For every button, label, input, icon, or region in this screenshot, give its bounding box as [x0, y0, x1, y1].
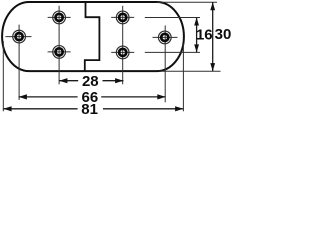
bottom extension line to 30 dim: [159, 70, 221, 72]
svg-text:81: 81: [81, 101, 98, 118]
holes TL/BL centerlines: [48, 6, 71, 85]
81 dim extension line right: [182, 44, 184, 111]
hole BL circles: [53, 46, 66, 59]
28 dim arrow left: [59, 78, 67, 83]
hole R centerlines: [153, 25, 178, 102]
svg-text:28: 28: [82, 73, 99, 90]
top extension line to 30 dim: [157, 1, 217, 3]
hole R circles: [158, 31, 171, 44]
svg-text:30: 30: [215, 26, 232, 43]
hinge body outline (obround plan view): [2, 2, 184, 71]
28 dim line: [59, 80, 78, 82]
hole L centerlines: [6, 25, 32, 100]
hole BR circles: [116, 46, 129, 59]
66 dim arrow left: [19, 94, 27, 99]
hole TR circles: [116, 11, 129, 24]
81 dim line: [3, 108, 77, 110]
16 dim arrow up: [194, 18, 199, 26]
66 dim arrow right: [157, 94, 165, 99]
16 dim arrow down: [194, 44, 199, 52]
hinge joint (interlocking leaf edges): [85, 2, 100, 71]
hole TL circles: [53, 11, 66, 24]
28 dim arrow right: [115, 78, 123, 83]
30 dim arrow up: [210, 2, 215, 10]
81 dim arrow left: [3, 106, 11, 111]
hole L circles: [13, 30, 26, 43]
66 dim line: [19, 96, 78, 98]
svg-text:16: 16: [196, 26, 213, 43]
30 dim line: [212, 2, 214, 71]
holes TR/BR centerlines: [111, 6, 134, 85]
16 dim line: [196, 18, 198, 53]
81 dim arrow right: [175, 106, 183, 111]
81 dim extension line left: [2, 41, 4, 111]
16 dim extension lines: [145, 17, 200, 19]
30 dim arrow down: [210, 63, 215, 71]
